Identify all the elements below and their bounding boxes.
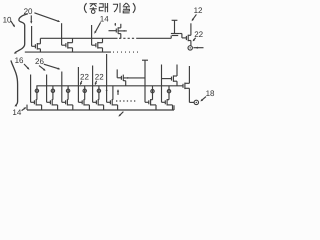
transistor Q4 source arm with arrow: [118, 30, 127, 32]
leader arrow 22 bottom left: [80, 81, 81, 84]
transistor M7 source arm: [151, 104, 156, 106]
svg-text:14: 14: [12, 108, 21, 117]
leader arrow for label 10: [11, 21, 15, 26]
transistor Q5 supply tick: [172, 19, 178, 21]
transistor Q1 gate bar: [34, 44, 36, 48]
transistor Q1 group (leftmost top row): [31, 26, 33, 46]
transistor Q1 channel bar: [36, 43, 38, 50]
transistor M7 gate lead: [145, 101, 149, 103]
bottom rail right end hook: [173, 105, 175, 110]
transistor M8 source arm: [167, 104, 172, 106]
transistor M5 drain wire to bus: [98, 86, 100, 100]
transistor M7 channel bar: [150, 99, 152, 105]
transistor Q3 source arm: [98, 47, 103, 49]
transistor Q7 gate bar: [120, 76, 122, 80]
transistor Q8 gate feed: [162, 78, 172, 80]
transistor M5 source arm: [98, 104, 103, 106]
transistor M3 channel bar: [66, 99, 68, 105]
transistor M8 gate stub wire: [161, 65, 163, 103]
transistor Q6 channel bar: [187, 35, 189, 42]
small input arrow above Q4: [114, 23, 116, 25]
bottom rail: [27, 109, 174, 111]
leader arrow 22 top-right: [193, 38, 195, 41]
leader arrow 26 right: [44, 64, 59, 69]
transistor M8 channel bar: [166, 99, 168, 105]
transistor Q9 gate bar (fed by bus end): [182, 84, 184, 88]
transistor M2 channel bar: [51, 99, 53, 105]
svg-text:14: 14: [100, 14, 109, 23]
transistor Q8 channel bar: [172, 75, 174, 81]
node circle on M7 drain: [151, 90, 154, 93]
lower rail dashed continuation: [113, 51, 141, 53]
transistor M1 source arm: [36, 104, 41, 106]
wire to bottom output terminal: [189, 101, 194, 103]
transistor Q8 drain arm and wire up: [173, 75, 177, 77]
transistor M6 gate stub wire: [106, 54, 108, 102]
arrowhead on tall stub at bus crossing: [106, 89, 108, 91]
node circle on M1 drain: [35, 89, 38, 92]
leader arrow 26 left: [39, 66, 45, 71]
transistor M4 gate lead: [78, 101, 82, 103]
transistor M4 gate bar: [81, 100, 83, 104]
transistor Q9 drain arm and wire up: [185, 82, 190, 84]
top rail solid right segment: [137, 37, 171, 39]
lower rail of top row: [25, 51, 111, 53]
leader arrow 18: [201, 97, 206, 101]
transistor Q4 channel bar: [117, 27, 119, 33]
transistor Q2 source arm: [68, 47, 73, 49]
transistor M2 gate bar: [49, 100, 51, 104]
title glyph 종: [90, 3, 97, 5]
transistor Q2 channel bar: [67, 42, 69, 49]
transistor Q8 gate bar: [171, 77, 173, 81]
transistor M6 drain wire to bus: [112, 86, 114, 100]
transistor Q2 drain arm: [68, 42, 73, 44]
transistor M7 gate stub wire: [144, 60, 146, 102]
transistor M4 drain arm: [83, 99, 86, 101]
transistor Q4 drain arm: [118, 27, 121, 29]
svg-text:22: 22: [95, 73, 104, 82]
svg-text:12: 12: [194, 6, 203, 15]
transistor M6 gate lead: [107, 101, 111, 103]
transistor Q8 source arm to bus: [173, 80, 177, 82]
svg-text:10: 10: [3, 15, 12, 24]
title text closing paren: [133, 3, 135, 13]
transistor M8 drain wire to bus: [168, 86, 170, 100]
transistor M5 drain arm: [97, 99, 100, 101]
title glyph 래: [99, 4, 103, 11]
transistor M6 source arm: [112, 104, 117, 106]
transistor Q3 drain arm: [98, 42, 103, 44]
transistor M3 drain arm: [66, 99, 69, 101]
transistor M3 gate bar: [65, 100, 67, 104]
transistor M2 drain wire to bus: [52, 86, 54, 100]
node circle on M4 drain: [83, 89, 86, 92]
transistor M6 gate bar: [109, 100, 111, 104]
leader arrow 20 to second gate wire: [34, 13, 58, 22]
transistor Q6 gate bar: [185, 36, 187, 40]
transistor M5 gate bar: [95, 100, 97, 104]
transistor Q1 source arm: [37, 48, 40, 50]
transistor Q5 source arm: [179, 33, 182, 35]
transistor M3 drain wire to bus: [67, 86, 69, 100]
wire Q5 source to Q6 gate: [182, 37, 187, 39]
transistor Q5 channel bar (horizontal): [171, 33, 179, 35]
transistor M2 gate stub wire: [46, 75, 48, 103]
transistor M1 gate bar: [33, 100, 35, 104]
node circle on M8 drain: [167, 90, 170, 93]
transistor M8 drain arm: [167, 99, 169, 101]
transistor M4 gate stub wire: [77, 67, 79, 102]
diagonal arrow below bottom rail: [119, 112, 123, 116]
transistor Q4 gate bar: [115, 29, 117, 33]
transistor M4 drain wire to bus: [84, 86, 86, 100]
transistor Q3 gate feed wire: [91, 25, 93, 45]
transistor Q4 lower arm to rail: [118, 33, 121, 35]
transistor Q2 gate bar: [65, 43, 67, 47]
svg-text:18: 18: [206, 89, 215, 98]
transistor Q9 source arm down to output: [185, 87, 190, 89]
svg-text:16: 16: [15, 56, 24, 65]
transistor Q4 gate feed: [109, 30, 117, 32]
transistor M7 drain wire to bus: [152, 86, 154, 100]
leader arrow 22 bottom right: [95, 81, 96, 84]
transistor M2 drain arm: [51, 99, 54, 101]
svg-text:22: 22: [194, 30, 203, 39]
small arrow pointing up at bus: [117, 90, 119, 95]
transistor Q9 channel bar: [184, 83, 186, 90]
leader arrow 14 bottom: [22, 108, 26, 111]
transistor Q2 gate feed wire: [61, 23, 63, 45]
transistor M7 gate bar: [148, 100, 150, 104]
leader arrow 14 top: [95, 22, 101, 32]
transistor Q7 output arm with arrow: [123, 77, 145, 79]
transistor M5 gate lead: [93, 101, 97, 103]
top rail dashed segment: [119, 37, 137, 39]
title glyph 술: [123, 3, 126, 6]
transistor M5 gate stub wire: [92, 66, 94, 103]
transistor Q7 source arm to bus: [123, 80, 125, 82]
node circle on M5 drain: [97, 89, 100, 92]
transistor M2 source arm: [52, 104, 57, 106]
output terminal circle top-right: [188, 46, 192, 50]
transistor M3 gate stub wire: [61, 72, 63, 103]
transistor M8 gate lead: [162, 101, 166, 103]
transistor Q5 gate bar (horizontal): [172, 35, 178, 37]
curved leader from 20 region down to node 16: [15, 14, 28, 53]
transistor Q7 gate feed wire: [116, 69, 118, 77]
svg-text:26: 26: [35, 57, 44, 66]
svg-text:22: 22: [80, 73, 89, 82]
transistor Q5 gate feed from rail: [170, 36, 172, 39]
supply tick over right section: [142, 59, 148, 61]
dashed continuation of bottom row: [116, 100, 138, 102]
transistor M1 gate stub wire: [30, 75, 32, 103]
transistor M4 channel bar: [83, 99, 85, 105]
transistor M3 gate lead: [62, 101, 66, 103]
transistor M1 channel bar: [35, 99, 37, 105]
leader arrow 16: [24, 64, 29, 69]
transistor Q6 drain arm and wire up (pointed by 12): [188, 34, 191, 36]
curved leader from 16 region down to node 14: [11, 60, 18, 105]
transistor M5 channel bar: [97, 99, 99, 105]
transistor M1 drain arm: [35, 99, 38, 101]
node circle on M2 drain: [51, 89, 54, 92]
transistor M6 drain arm: [111, 99, 114, 101]
transistor M8 gate bar: [164, 100, 166, 104]
transistor M7 drain arm: [151, 99, 153, 101]
output terminal circle bottom-right: [194, 100, 198, 104]
transistor M1 gate lead: [31, 101, 35, 103]
leader arrow 20 to first gate wire: [30, 15, 32, 22]
title text (종래 기술) - opening paren: [84, 3, 86, 13]
transistor M1 drain wire to bus: [36, 86, 38, 100]
leader arrow 12: [192, 14, 196, 20]
transistor Q6 source arm down to output node: [188, 40, 191, 42]
transistor M6 channel bar: [111, 99, 113, 105]
transistor Q5 drain wire up: [174, 20, 176, 33]
bottom rail left end hook: [26, 105, 28, 110]
transistor M3 source arm: [67, 104, 72, 106]
transistor Q3 gate bar: [95, 43, 97, 47]
top rail solid left segment: [40, 37, 117, 39]
transistor Q1 drain arm: [37, 43, 40, 45]
transistor Q7 channel bar: [122, 75, 124, 81]
transistor Q3 channel bar: [97, 42, 99, 49]
transistor M4 source arm: [84, 104, 89, 106]
horizontal bus between rows: [36, 85, 183, 87]
output arrow top-right: [193, 47, 203, 49]
node circle on M3 drain: [66, 89, 69, 92]
title glyph 기: [113, 4, 118, 12]
transistor M2 gate lead: [47, 101, 51, 103]
